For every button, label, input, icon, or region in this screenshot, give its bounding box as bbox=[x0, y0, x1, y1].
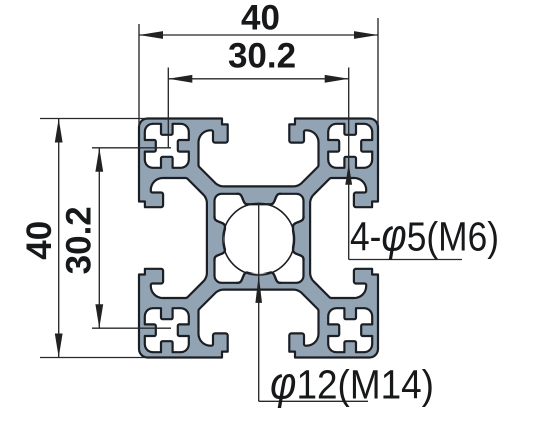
svg-text:30.2: 30.2 bbox=[60, 206, 99, 274]
arrowhead right (40 top) bbox=[354, 31, 378, 39]
extension line right hole center (30.2 top) + leader 4-phi5 bbox=[348, 68, 350, 260]
dimension line 30.2 left bbox=[98, 148, 100, 328]
svg-text:30.2: 30.2 bbox=[228, 37, 296, 76]
corner hole 2 (4-phi5 M6) bbox=[328, 124, 372, 168]
leader arrow phi12 pointing at circle bottom bbox=[255, 275, 262, 303]
center cavity bbox=[215, 194, 304, 283]
arrowhead bottom (40 left) bbox=[55, 334, 63, 358]
svg-text:4-φ5(M6): 4-φ5(M6) bbox=[350, 210, 499, 261]
extension line bottom edge (40 left) bbox=[40, 357, 147, 359]
cavity pinch outline pinch_left bbox=[215, 216, 226, 261]
leader underline 4-phi5 bbox=[349, 259, 462, 261]
cavity pinch outline pinch_right bbox=[293, 216, 304, 261]
arrowhead top (30.2 left) bbox=[95, 148, 103, 172]
center hole circle phi12 bbox=[223, 203, 295, 275]
dimension line 40 left bbox=[58, 119, 60, 358]
dimension line 40 top bbox=[139, 34, 378, 36]
extension line top edge (40 left) bbox=[40, 118, 147, 120]
arrowhead right (30.2 top) bbox=[325, 75, 349, 83]
corner hole 1 (4-phi5 M6) bbox=[145, 124, 189, 168]
leader underline phi12 bbox=[259, 400, 368, 402]
corner hole 4 (4-phi5 M6) bbox=[328, 308, 372, 352]
svg-text:40: 40 bbox=[20, 221, 59, 260]
arrowhead left (30.2 top) bbox=[168, 75, 192, 83]
svg-text:40: 40 bbox=[241, 0, 280, 37]
leader arrow 4-phi5 pointing at corner hole bbox=[345, 164, 352, 185]
arrowhead bottom (30.2 left) bbox=[95, 304, 103, 328]
extension line right edge (40 top) bbox=[377, 18, 379, 126]
corner hole 3 (4-phi5 M6) bbox=[145, 308, 189, 352]
cavity pinch outline pinch_bottom bbox=[237, 272, 282, 283]
center line + leader phi12 bbox=[258, 203, 260, 402]
extrusion profile body bbox=[139, 119, 378, 358]
extension line top hole center (30.2 left) bbox=[92, 147, 171, 149]
extension line left edge (40 top) bbox=[138, 24, 140, 126]
extension line left hole center (30.2 top) bbox=[167, 68, 169, 148]
dimension line 30.2 top bbox=[168, 78, 348, 80]
arrowhead top (40 left) bbox=[55, 119, 63, 143]
cavity pinch outline top bbox=[237, 194, 282, 205]
svg-text:φ12(M14): φ12(M14) bbox=[270, 357, 434, 408]
arrowhead left (40 top) bbox=[139, 31, 163, 39]
extension line bottom hole center (30.2 left) bbox=[92, 327, 171, 329]
